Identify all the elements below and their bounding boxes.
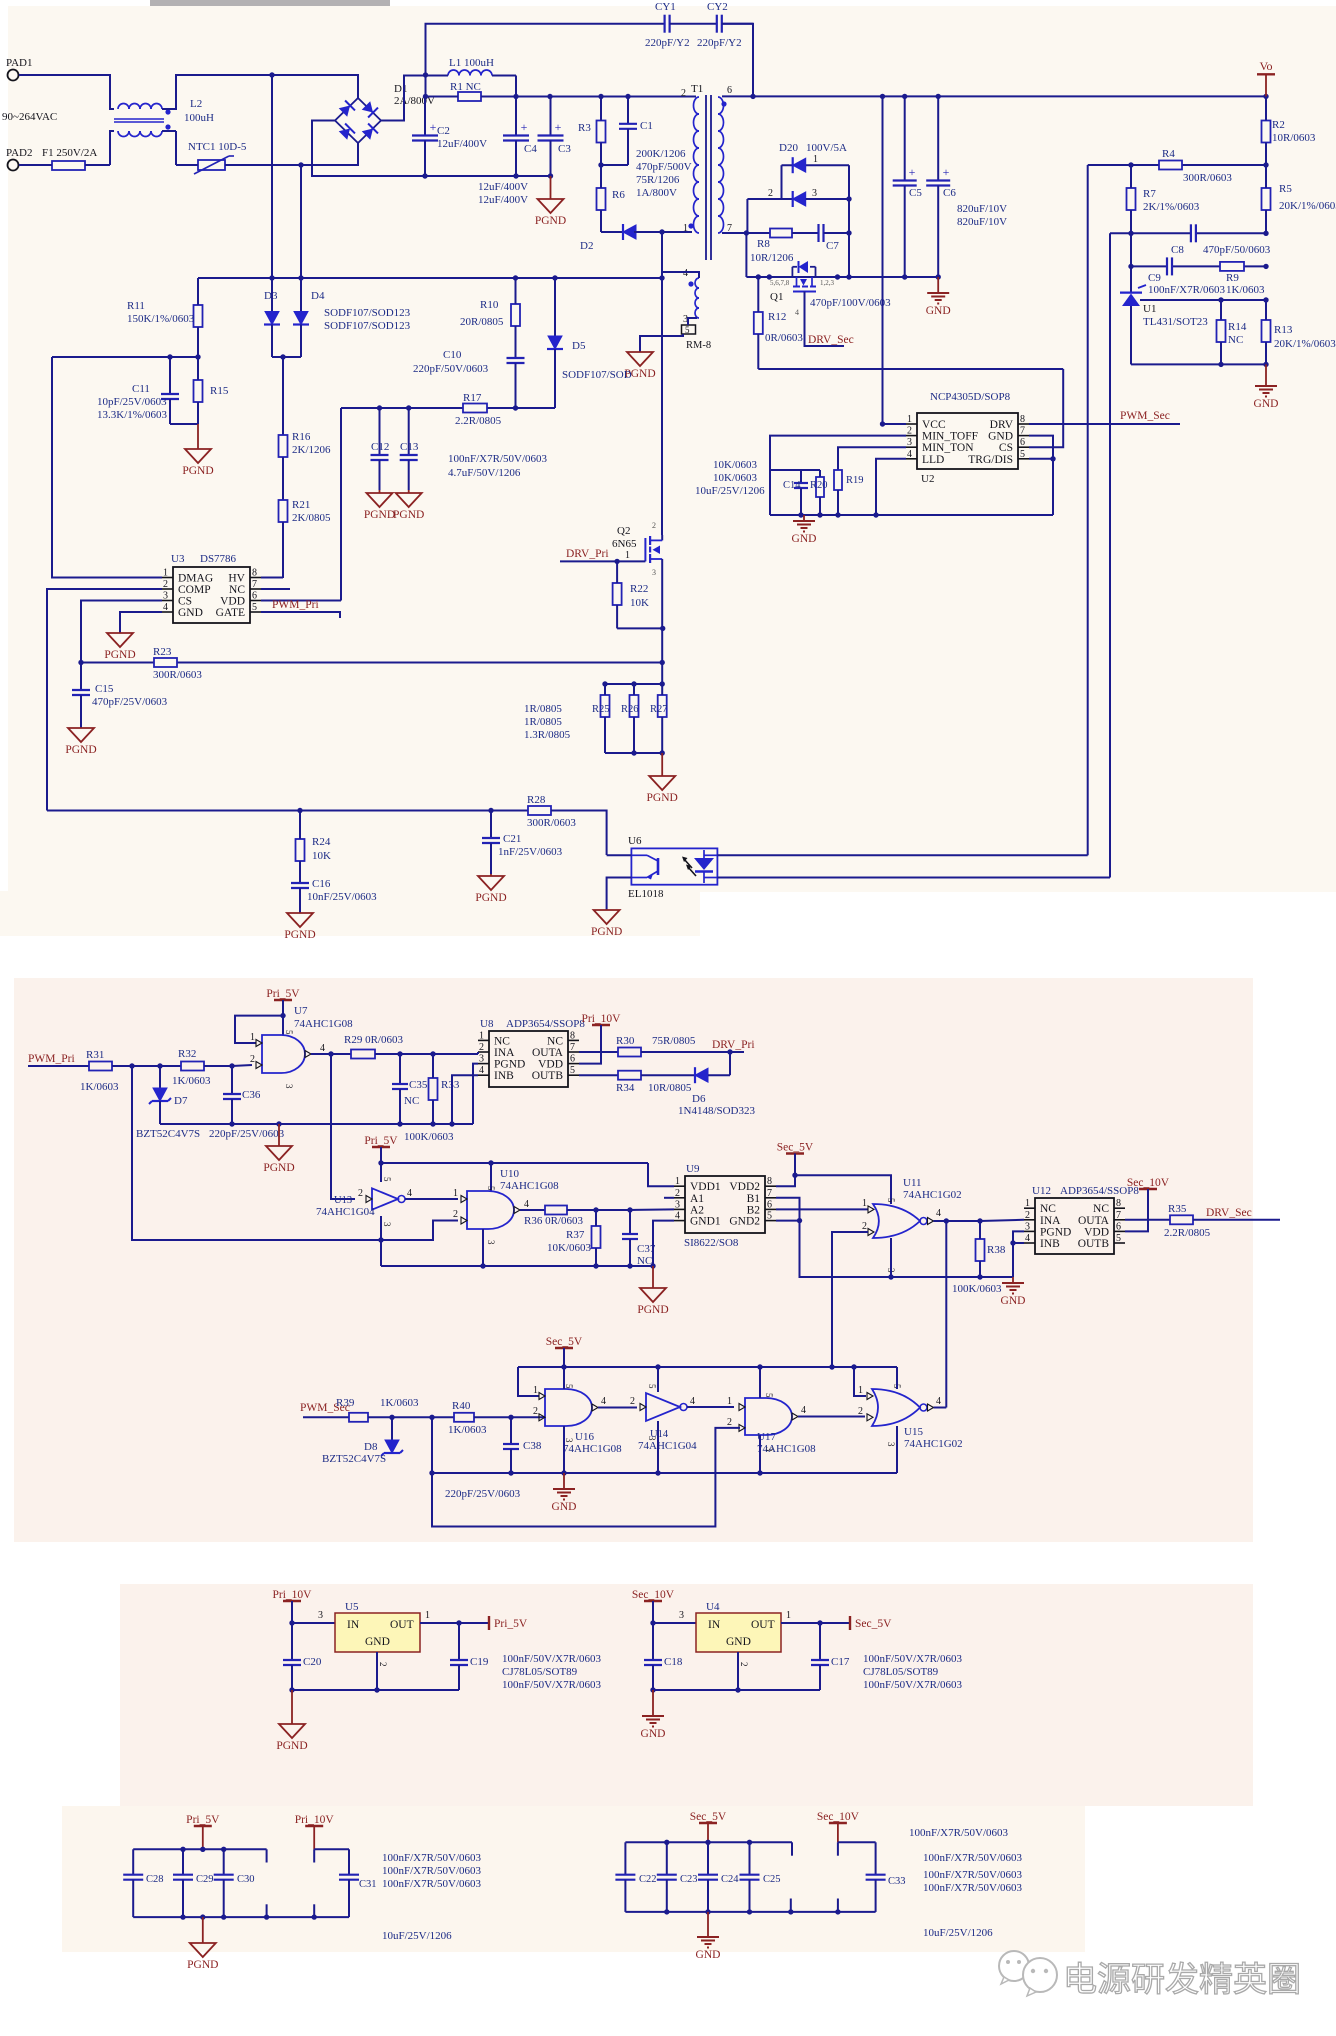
svg-text:R30: R30 [616,1035,635,1047]
junction sec b3 [747,1909,752,1914]
svg-text:SODF107/SOD: SODF107/SOD [562,369,632,381]
junction pin7 junction [744,230,749,235]
resistor R9 [1220,262,1244,271]
wire pwm sec row2 [368,1416,454,1418]
svg-text:R31: R31 [86,1049,104,1061]
IC U2 NCP4305D [906,413,1029,469]
svg-text:R12: R12 [768,311,786,323]
svg-text:INA: INA [1040,1215,1061,1227]
junction mains rail / CY tap [269,72,274,77]
junction rail u16 [561,1364,566,1369]
junction gbus u14 [655,1470,660,1475]
svg-text:200K/1206: 200K/1206 [636,148,686,160]
svg-text:1: 1 [862,1198,867,1209]
wire Pri bank2 rail [314,1848,349,1850]
junction mains rail / bridge [423,72,428,77]
transformer T1 [688,95,726,318]
resistor R22 [613,561,622,628]
power Pri_10V reg [273,1589,313,1601]
svg-text:C21: C21 [503,833,521,845]
wire U5 gnd rail [292,1689,459,1691]
svg-text:20K/1%/0603: 20K/1%/0603 [1274,338,1336,350]
junction snubber C1 junction [625,94,630,99]
svg-text:PGND: PGND [494,1059,525,1071]
svg-text:10K/0603: 10K/0603 [547,1242,592,1254]
svg-text:R19: R19 [846,475,864,486]
power Sec_5V port [849,1616,851,1630]
svg-text:10uF/25V/1206: 10uF/25V/1206 [695,485,765,497]
svg-text:PGND: PGND [393,509,424,521]
svg-text:CS: CS [999,442,1013,454]
svg-text:Pri_5V: Pri_5V [186,1814,220,1826]
wire u8 vdd [579,1025,601,1064]
background bottom caps sheet [62,1806,1085,1952]
svg-text:Q1: Q1 [770,291,783,303]
svg-text:U7: U7 [294,1005,308,1017]
junction pri5 rail tap [378,1160,383,1165]
svg-text:6: 6 [1020,437,1025,448]
svg-text:10K/0603: 10K/0603 [713,459,758,471]
svg-text:U3: U3 [171,553,185,565]
svg-text:12uF/400V: 12uF/400V [437,138,487,150]
svg-text:C10: C10 [443,349,462,361]
power Sec_10V bank [817,1811,860,1842]
svg-text:GND: GND [1254,398,1279,410]
svg-text:Sec_5V: Sec_5V [855,1618,892,1630]
gate U10 74AHC1G08 [467,1191,514,1229]
svg-text:2: 2 [652,521,656,530]
junction snubber R3 junction [598,94,603,99]
junction U4 gnd n1 [650,1687,655,1692]
wire fb tap down [1088,164,1131,166]
svg-text:B1: B1 [747,1193,761,1205]
wire u13 out [405,1198,458,1200]
wire comp row [47,810,528,812]
svg-text:PWM_Pri: PWM_Pri [28,1053,75,1065]
shunt regulator U1 TL431 [1120,285,1146,306]
svg-text:R20: R20 [810,480,828,491]
ground PGND U3 [104,633,135,661]
svg-text:PWM_Pri: PWM_Pri [272,599,319,611]
svg-text:GND: GND [792,533,817,545]
svg-text:DRV_Pri: DRV_Pri [712,1039,755,1051]
svg-text:220pF/25V/0603: 220pF/25V/0603 [445,1488,521,1500]
svg-text:10K: 10K [630,597,649,609]
capacitor C14 [794,470,808,515]
svg-text:RM-8: RM-8 [686,340,711,351]
ground PGND C16 [284,913,315,941]
svg-text:10uF/25V/1206: 10uF/25V/1206 [923,1927,993,1939]
junction sec b1 [664,1909,669,1914]
svg-text:PWM_Sec: PWM_Sec [1120,410,1170,422]
svg-text:1R/0805: 1R/0805 [524,703,562,715]
svg-text:INB: INB [494,1070,514,1082]
junction sense b2 [631,750,636,755]
wire r36 row [567,1208,674,1211]
junction bus r20 [817,512,822,517]
wire mains sense drop2 [300,165,302,278]
svg-text:GND: GND [726,1636,751,1648]
wire pri bstub1 [266,1904,268,1917]
svg-text:20R/0805: 20R/0805 [460,316,504,328]
svg-text:U12: U12 [1032,1185,1051,1197]
capacitor C16 [291,883,309,913]
resistor R26 [630,684,639,753]
diode D3 [264,278,280,357]
svg-text:6: 6 [1116,1221,1121,1232]
wire B+ rail [516,96,696,98]
capacitor C18 [644,1623,662,1690]
wire u14 pin3 [657,1421,659,1473]
svg-text:2: 2 [862,1221,867,1232]
junction pri t2 [200,1847,205,1852]
svg-text:SODF107/SOD123: SODF107/SOD123 [324,307,411,319]
capacitor C22 [615,1842,635,1912]
power Pri_5V bank [186,1814,220,1849]
resistor R39 [349,1413,368,1422]
junction bus c14 [798,512,803,517]
wire sense top bus [605,683,662,685]
svg-text:U4: U4 [706,1601,720,1613]
junction bus inb [449,1121,454,1126]
svg-text:C30: C30 [237,1874,255,1885]
resistor R4 [1159,161,1182,170]
wire u9 gnd2 down [800,1221,1014,1277]
power Sec_10V U12 [1127,1177,1170,1189]
wire gate wire [560,560,645,562]
svg-text:220pF/Y2: 220pF/Y2 [697,37,742,49]
svg-text:R5: R5 [1279,183,1292,195]
svg-text:D5: D5 [572,340,586,352]
junction sec b5 [835,1909,840,1914]
svg-text:2: 2 [727,1417,732,1428]
junction sec t1 [664,1840,669,1845]
svg-text:C22: C22 [639,1874,657,1885]
wire u10 vcc drop [490,1163,492,1191]
wire T1 pin7 wire [722,232,746,234]
svg-text:OUTB: OUTB [532,1070,564,1082]
wire U4 in stem [653,1601,696,1623]
wire U4 gnd stub [737,1652,739,1690]
wire pin7 row [746,232,770,234]
resistor R5 [1262,165,1271,233]
wire R28 to opto [551,811,607,856]
svg-text:1: 1 [533,1385,538,1396]
svg-text:B2: B2 [747,1204,761,1216]
svg-text:R34: R34 [616,1082,635,1094]
svg-text:3: 3 [163,591,168,602]
wire T1 pin4 wire [662,272,699,278]
svg-text:4: 4 [683,268,688,279]
wire snubber mid node [601,164,628,166]
capacitor C17 [811,1623,829,1690]
junction bus r37 [593,1263,598,1268]
svg-text:4: 4 [479,1065,484,1076]
svg-text:2K/1%/0603: 2K/1%/0603 [1143,201,1200,213]
wire C8 row l [1110,232,1190,234]
wire bridge plus up [381,76,426,121]
svg-text:2: 2 [378,1662,388,1667]
junction bus c35 [397,1121,402,1126]
ground GND U2 [792,515,817,545]
svg-text:6N65: 6N65 [612,538,637,550]
junction sense t1 [602,681,607,686]
svg-text:8: 8 [1116,1198,1121,1209]
svg-text:PGND: PGND [263,1162,294,1174]
svg-text:Pri_10V: Pri_10V [273,1589,313,1601]
svg-text:3: 3 [382,1222,392,1227]
wire u13 drop ext [380,1240,382,1266]
ground GND output [926,277,951,317]
svg-text:U8: U8 [480,1018,494,1030]
capacitor C12 [371,408,389,490]
svg-text:100nF/50V/X7R/0603: 100nF/50V/X7R/0603 [502,1653,602,1665]
junction bus r19 [835,512,840,517]
svg-text:470pF/100V/0603: 470pF/100V/0603 [810,297,891,309]
svg-text:PGND: PGND [182,465,213,477]
resistor R40 [454,1413,474,1422]
diode D5 [547,278,563,408]
svg-text:2: 2 [630,1396,635,1407]
svg-text:VDD2: VDD2 [729,1181,760,1193]
junction C5 top [902,94,907,99]
wire u11 gnd drop [890,1238,892,1277]
wire pri rail2 stub [313,1849,315,1862]
svg-text:12uF/400V: 12uF/400V [478,181,528,193]
ground PGND opto [591,910,622,938]
wire aux pad to pgnd [640,334,683,352]
svg-text:4: 4 [601,1396,606,1407]
svg-text:1: 1 [675,1176,680,1187]
wire L1 left node drop [425,76,427,97]
svg-text:R8: R8 [757,238,770,250]
junction R10 top [513,275,518,280]
svg-text:4: 4 [801,1405,806,1416]
junction C8 left [1128,231,1133,236]
svg-text:D2: D2 [580,240,593,252]
svg-text:C2: C2 [437,125,450,137]
junction U5 gnd n1 [289,1687,294,1692]
svg-text:220pF/25V/0603: 220pF/25V/0603 [209,1128,285,1140]
svg-text:IN: IN [347,1619,360,1631]
wire C9 row [1131,265,1167,267]
svg-text:2K/1206: 2K/1206 [292,444,331,456]
junction pin5 join [1050,456,1055,461]
svg-text:470pF/25V/0603: 470pF/25V/0603 [92,696,168,708]
svg-text:GND1: GND1 [690,1216,721,1228]
wire clamp row [198,277,662,279]
svg-text:1: 1 [425,1610,430,1621]
wire VDD wire [261,600,341,602]
svg-text:SI8622/SO8: SI8622/SO8 [684,1237,739,1249]
svg-text:74AHC1G02: 74AHC1G02 [903,1189,962,1201]
wire u16 out [598,1407,637,1409]
power Pri_5V U7 [266,988,300,1000]
svg-text:1N4148/SOD323: 1N4148/SOD323 [678,1105,756,1117]
svg-text:90~264VAC: 90~264VAC [2,111,57,123]
svg-text:INA: INA [494,1047,515,1059]
junction pri t1 [180,1847,185,1852]
svg-text:PGND: PGND [475,892,506,904]
svg-text:1: 1 [858,1385,863,1396]
diode D20 lower [793,191,806,207]
junction ref R14 [1218,297,1223,302]
junction C4 bottom [513,173,518,178]
svg-text:F1 250V/2A: F1 250V/2A [42,147,97,159]
svg-text:2: 2 [479,1042,484,1053]
svg-text:NCP4305D/SOP8: NCP4305D/SOP8 [930,391,1011,403]
ground PGND logic1 [263,1124,294,1174]
wire bridge minus to bottom rail [312,121,425,177]
wire CS route [81,601,162,663]
svg-text:Pri_5V: Pri_5V [494,1618,528,1630]
ground PGND C13 [393,490,424,521]
resistor R17 [463,404,487,413]
wire pwm row 2 [112,1065,181,1067]
svg-text:U1: U1 [1143,303,1156,315]
resistor R23 [154,658,177,667]
wire gnd bus mid [160,1123,473,1125]
svg-text:U15: U15 [904,1426,923,1438]
svg-text:NC: NC [494,1035,510,1047]
wire sec rail2 stub [837,1842,839,1855]
wire u15 out [934,1407,947,1409]
wire u17 out [798,1416,865,1418]
wire u16 pin5 [563,1367,565,1389]
svg-text:2: 2 [1025,1210,1030,1221]
svg-text:C29: C29 [196,1874,214,1885]
capacitor C4 [503,97,529,177]
wire u11 in2 loop [832,1232,868,1367]
ground PGND logic2 [637,1266,668,1316]
svg-text:74AHC1G04: 74AHC1G04 [638,1440,697,1452]
zener D7 [149,1066,171,1124]
capacitor C28 [123,1849,143,1917]
svg-text:2: 2 [358,1188,363,1199]
svg-text:C18: C18 [664,1656,683,1668]
svg-text:+: + [909,165,916,179]
svg-text:COMP: COMP [178,584,211,596]
resistor R28 [528,806,551,815]
svg-text:D8: D8 [364,1441,378,1453]
svg-text:100nF/X7R/0603: 100nF/X7R/0603 [1148,284,1226,296]
svg-text:3: 3 [886,1442,896,1447]
junction b1 gnd2 join [797,1218,802,1223]
wire fbA join [1087,852,1089,855]
junction c37 top [627,1207,632,1212]
ground PGND U5 [276,1690,307,1752]
svg-text:R40: R40 [452,1400,471,1412]
resistor R1 [426,92,517,101]
svg-text:R38: R38 [987,1244,1006,1256]
wire R23 row b [177,662,662,664]
svg-text:2: 2 [768,188,773,199]
diode D4 [293,278,309,357]
resistor R38 [976,1221,985,1277]
wire D20 left drop [781,165,783,199]
svg-text:OUTA: OUTA [532,1047,564,1059]
junction pri b1 [180,1914,185,1919]
gate U11 74AHC1G02 [873,1204,920,1238]
junction bus pg [276,1121,281,1126]
wire sense bot bus [605,752,662,754]
junction C12 top [377,405,382,410]
svg-text:4: 4 [795,308,799,317]
junction gbus u17 [757,1470,762,1475]
svg-text:L2: L2 [190,98,202,110]
svg-text:A1: A1 [690,1193,704,1205]
wire R4 row b [1182,164,1266,166]
junction rail d2 [767,274,772,279]
capacitor C25 [740,1842,760,1912]
svg-text:1: 1 [250,1032,255,1043]
gate U14 74AHC1G04 [646,1393,680,1421]
svg-text:R35: R35 [1168,1203,1187,1215]
wire U1 anode down [1130,306,1132,364]
svg-text:4: 4 [407,1188,412,1199]
svg-text:75R/0805: 75R/0805 [652,1035,696,1047]
svg-text:8: 8 [1020,414,1025,425]
wire CY right drop [722,24,753,97]
svg-text:1R/0805: 1R/0805 [524,716,562,728]
svg-text:4: 4 [675,1211,680,1222]
svg-text:8: 8 [570,1030,575,1041]
resistor R16 [279,435,288,500]
wire U5 gnd stub [376,1652,378,1690]
svg-text:电源研发精英圈: 电源研发精英圈 [1063,1961,1301,1999]
svg-text:GATE: GATE [216,607,245,619]
svg-text:C6: C6 [943,187,956,199]
resistor R14 [1217,300,1226,364]
svg-text:CJ78L05/SOT89: CJ78L05/SOT89 [863,1666,939,1678]
svg-text:150K/1%/0603: 150K/1%/0603 [127,313,195,325]
IC U9 SI8622 [674,1176,776,1233]
wire R5 chain [1265,165,1267,188]
wire u15 pin5 [896,1367,898,1389]
svg-text:PGND: PGND [637,1304,668,1316]
junction D4 top [298,275,303,280]
junction sense t2 [631,681,636,686]
svg-text:1: 1 [625,550,630,561]
junction c38 top [508,1415,513,1420]
svg-text:R22: R22 [630,583,648,595]
resistor R13 [1262,300,1271,364]
svg-text:13.3K/1%/0603: 13.3K/1%/0603 [97,409,167,421]
junction u10 vcc tap [488,1160,493,1165]
wire R8 to C7 [792,232,819,234]
wire u15 in1 loop [854,1367,866,1396]
capacitor C3 [538,97,564,177]
wire bottom minus rail [312,175,551,177]
gate U17 74AHC1G08 [745,1398,792,1435]
svg-text:75R/1206: 75R/1206 [636,174,680,186]
wire u13 stem [380,1147,382,1182]
power Sec_5V row3 [546,1336,583,1348]
power Sec_5V U9 [777,1142,814,1154]
svg-text:74AHC1G02: 74AHC1G02 [904,1438,963,1450]
svg-text:SODF107/SOD123: SODF107/SOD123 [324,320,411,332]
wire bridge AC2 entry [301,143,358,165]
svg-text:R2: R2 [1272,119,1285,131]
wire gate gnd bus [432,1472,897,1474]
svg-text:U2: U2 [921,473,934,485]
wire U5 in stem [292,1601,335,1623]
junction VCC pin1 [880,421,885,426]
svg-text:4: 4 [524,1199,529,1210]
wire pwm pri row [28,1065,89,1067]
svg-text:5: 5 [685,325,690,335]
svg-text:6: 6 [767,1199,772,1210]
